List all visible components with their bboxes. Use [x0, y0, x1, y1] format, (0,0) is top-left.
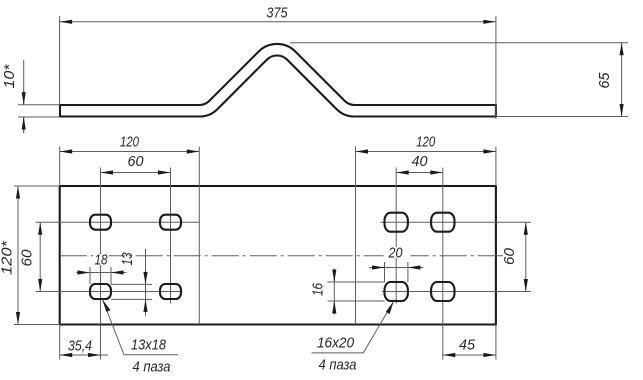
svg-text:18: 18 — [95, 253, 108, 269]
extension line plate bottom right (65) — [497, 116, 628, 118]
extension 120* top — [14, 185, 60, 187]
dimension 40 (top right group) — [396, 154, 443, 173]
extension lines (10*) — [18, 104, 59, 106]
svg-text:4 паза: 4 паза — [319, 358, 357, 374]
dimension 20 (slot width, right) — [369, 246, 423, 283]
svg-text:120: 120 — [416, 134, 435, 150]
dimension 16 (slot height, right) — [311, 269, 385, 315]
svg-text:60: 60 — [502, 248, 518, 265]
svg-text:40: 40 — [412, 154, 428, 170]
dimension 13 (slot height, left) — [111, 249, 152, 316]
dimension 60 (right rows) — [502, 222, 526, 291]
column center line 2 — [170, 168, 172, 304]
extension line left (375) — [59, 16, 61, 104]
dimension 120* (left) — [0, 186, 18, 325]
slot hole B3 (bottom-right group) — [385, 282, 408, 301]
dimension 60 (left rows) — [20, 222, 41, 291]
column center line 4 — [442, 168, 444, 360]
svg-text:13x18: 13x18 — [131, 338, 166, 354]
dimension 18 (slot width, left) — [76, 253, 126, 285]
dimension 45 — [443, 338, 496, 356]
svg-text:120: 120 — [120, 134, 139, 150]
slot hole A3 (bottom-left group) — [90, 284, 111, 299]
svg-text:20: 20 — [388, 246, 403, 262]
slot hole A2 — [160, 215, 181, 230]
column center line 1 — [100, 168, 102, 360]
svg-text:60: 60 — [20, 250, 36, 267]
slot hole A1 (top-left group) — [90, 215, 111, 230]
bend line right — [355, 147, 357, 325]
dimension 10* — [2, 60, 24, 134]
dimension 65 — [597, 43, 622, 117]
svg-text:375: 375 — [267, 6, 289, 22]
svg-text:4 паза: 4 паза — [133, 360, 171, 376]
svg-text:13: 13 — [120, 253, 136, 266]
extension: plate right edge above — [495, 147, 497, 187]
row center line bottom right — [382, 291, 531, 293]
extension: plate right edge below — [495, 325, 497, 360]
svg-text:45: 45 — [459, 338, 476, 354]
svg-text:60: 60 — [128, 154, 144, 170]
slot hole A4 — [160, 284, 181, 299]
dimension 375 — [60, 6, 496, 22]
row center line top right — [380, 221, 531, 223]
extension 120* bottom — [14, 324, 60, 326]
dimension 35,4 — [60, 339, 108, 356]
extension: plate left edge above — [59, 147, 61, 187]
svg-text:16: 16 — [311, 282, 327, 296]
middle center line — [60, 255, 503, 257]
extension line hump top (65) — [290, 42, 628, 44]
leader left (13x18) — [103, 300, 179, 376]
column center line 3 — [395, 168, 397, 304]
svg-text:16x20: 16x20 — [317, 336, 354, 352]
dimension 120 (top left) — [60, 134, 200, 151]
plate profile (top view) — [60, 44, 496, 117]
dimension 60 (top left group) — [101, 154, 171, 173]
plate outline (bottom view) — [60, 186, 496, 325]
extension line right (375) — [495, 16, 497, 119]
bend line left — [198, 147, 200, 325]
leader right (16x20) — [312, 302, 394, 374]
slot hole B4 — [431, 282, 454, 301]
slot hole B1 (top-right group) — [385, 213, 408, 232]
slot hole B2 — [431, 213, 454, 232]
row center line bottom left — [36, 291, 183, 293]
dimension 120 (top right) — [356, 134, 496, 151]
svg-text:65: 65 — [597, 72, 613, 89]
row center line top left — [36, 221, 200, 223]
svg-text:120*: 120* — [0, 239, 16, 275]
svg-text:35,4: 35,4 — [68, 339, 92, 355]
extension: plate left edge below — [59, 325, 61, 360]
svg-text:10*: 10* — [2, 63, 18, 88]
